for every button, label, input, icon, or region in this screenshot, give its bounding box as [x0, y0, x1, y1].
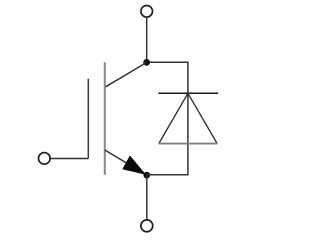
diode D1 triangle left side: [159, 93, 188, 143]
node E junction dot: [143, 172, 150, 179]
diode D1 triangle base (anode): [159, 143, 217, 145]
wire bottom rail to diode anode branch: [147, 174, 189, 176]
emitter terminal circle: [141, 220, 153, 232]
collector terminal circle: [141, 6, 153, 18]
node C junction dot: [143, 59, 150, 66]
IGBT Q1 body bar: [104, 62, 106, 175]
gate terminal circle: [39, 153, 51, 165]
IGBT Q1 collector lead: [105, 62, 147, 87]
wire gate terminal to gate bar: [50, 157, 88, 159]
IGBT Q1 emitter lead: [105, 150, 147, 175]
wire collector terminal to node C: [146, 18, 148, 63]
IGBT Q1 gate bar: [87, 79, 89, 159]
diode D1 triangle right side: [188, 93, 217, 143]
IGBT Q1 emitter arrow: [122, 155, 146, 174]
wire top rail to diode cathode branch: [147, 61, 189, 63]
wire diode branch vertical: [187, 62, 189, 175]
diode D1 cathode bar: [158, 92, 218, 94]
wire node E to emitter terminal: [146, 175, 148, 219]
